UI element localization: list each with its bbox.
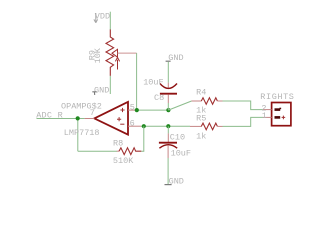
connector J1 RIGHTS xyxy=(260,92,294,126)
wire diagonal to R4 xyxy=(168,101,191,110)
svg-text:5: 5 xyxy=(130,102,135,112)
resistor R8 510K xyxy=(113,138,141,166)
svg-text:510K: 510K xyxy=(113,156,134,166)
wire opamp +in bus xyxy=(136,109,169,111)
wire ADC_R to opamp output xyxy=(37,118,85,120)
svg-text:6: 6 xyxy=(130,119,135,129)
resistor R9 (trimmer) xyxy=(88,30,120,76)
wire wiper to opamp +in xyxy=(136,53,138,110)
wire feedback vertical from output junction xyxy=(77,119,79,152)
wire feedback to R8 xyxy=(78,150,117,152)
wire R8 to -in xyxy=(141,126,144,151)
svg-text:10K: 10K xyxy=(93,47,103,63)
node VDD xyxy=(94,11,110,22)
svg-text:C8: C8 xyxy=(154,93,164,103)
svg-text:GND: GND xyxy=(169,176,184,186)
svg-text:ADC_R: ADC_R xyxy=(36,111,63,121)
wire R5 to connector pin 1 xyxy=(223,117,264,126)
svg-text:RIGHTS: RIGHTS xyxy=(260,92,294,102)
svg-text:R5: R5 xyxy=(196,113,206,123)
wire R4 to connector pin 2 xyxy=(223,101,264,110)
wire GND to C8 xyxy=(167,62,169,83)
wire VDD to R9 xyxy=(109,12,111,30)
capacitor C8 10uF xyxy=(143,77,177,103)
svg-text:LMP7718: LMP7718 xyxy=(64,128,100,138)
junction feedback/-in xyxy=(142,124,146,128)
wire R9 bottom to GND xyxy=(109,76,111,94)
svg-text:R4: R4 xyxy=(196,87,206,97)
junction C8/+in xyxy=(166,108,170,112)
ground GND (top, C8) xyxy=(166,53,184,63)
junction wiper/+in xyxy=(135,108,139,112)
svg-text:1k: 1k xyxy=(196,131,206,141)
junction C10/-in xyxy=(166,124,170,128)
svg-text:R8: R8 xyxy=(113,138,123,148)
ground GND (below R9) xyxy=(92,85,109,95)
op-amp U1 OPAMPG$2 LMP7718 xyxy=(61,101,141,138)
resistor R5 1k xyxy=(190,113,223,141)
svg-text:10uF: 10uF xyxy=(143,77,163,87)
resistor R4 1k xyxy=(192,87,223,115)
svg-text:OPAMPG$2: OPAMPG$2 xyxy=(61,101,102,111)
svg-text:7: 7 xyxy=(90,108,95,118)
svg-text:1: 1 xyxy=(262,111,267,121)
wire R9 wiper pin xyxy=(118,52,137,54)
junction output/feedback xyxy=(76,116,80,120)
svg-text:10uF: 10uF xyxy=(171,148,191,158)
svg-text:C10: C10 xyxy=(170,133,185,143)
ground GND (bottom, C10) xyxy=(165,176,184,186)
wire opamp -in bus xyxy=(141,125,190,127)
wire C10 to GND xyxy=(167,158,169,184)
wire C8 to +in bus xyxy=(167,103,169,110)
capacitor C10 10uF xyxy=(159,126,191,158)
svg-text:GND: GND xyxy=(94,85,109,95)
